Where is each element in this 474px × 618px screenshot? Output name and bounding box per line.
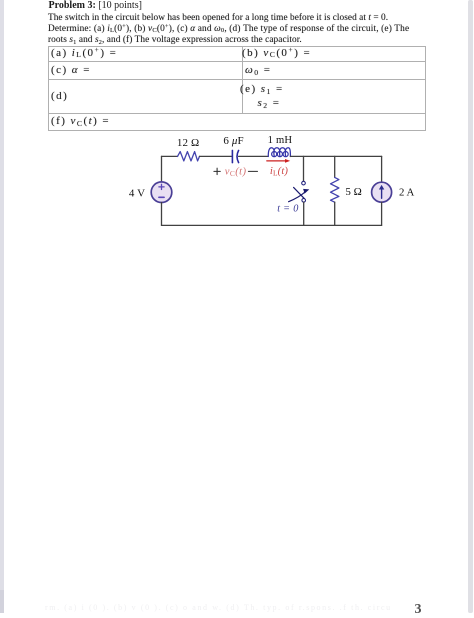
paragraph line 3 bbox=[48, 35, 302, 47]
wire bottom bbox=[162, 224, 382, 226]
right page-edge strip bbox=[468, 0, 474, 613]
svg-text:t = 0: t = 0 bbox=[277, 204, 299, 215]
wire right vertical (bottom part) bbox=[381, 202, 383, 225]
answer table borders bbox=[48, 46, 426, 47]
inductor L 1 mH bbox=[268, 148, 290, 157]
wire switch branch (top part) bbox=[303, 156, 305, 181]
svg-text:iL(t): iL(t) bbox=[270, 166, 289, 178]
paragraph line 2 bbox=[48, 24, 409, 36]
wire top segment: left corner to 12-ohm resistor bbox=[162, 155, 178, 157]
svg-text:4 V: 4 V bbox=[129, 187, 145, 199]
svg-text:1 mH: 1 mH bbox=[268, 135, 293, 146]
resistor R 12 ohm bbox=[178, 152, 200, 161]
label + vC(t) - capacitor voltage bbox=[214, 167, 258, 179]
page number 3 bbox=[415, 602, 422, 618]
wire 5-ohm branch (top part) bbox=[334, 156, 336, 177]
faint show-through text from next page bbox=[45, 603, 392, 612]
heading bbox=[49, 0, 142, 11]
wire right vertical (top part) bbox=[381, 156, 383, 182]
wire left vertical (top part) bbox=[161, 156, 163, 182]
voltage source V1 4V bbox=[151, 182, 172, 203]
svg-text:5 Ω: 5 Ω bbox=[345, 186, 361, 198]
wire capacitor to inductor bbox=[239, 155, 268, 157]
wire 5-ohm branch (bottom part) bbox=[334, 202, 336, 225]
svg-text:2 A: 2 A bbox=[399, 187, 415, 199]
left page-edge strip bbox=[0, 0, 4, 613]
switch SW closes at t=0 bbox=[289, 181, 310, 202]
wire switch branch (bottom part) bbox=[303, 202, 305, 225]
paragraph line 1 bbox=[48, 13, 388, 24]
table cell texts bbox=[51, 47, 117, 59]
wire left vertical (bottom part) bbox=[161, 203, 163, 226]
current arrow iL(t) under inductor bbox=[267, 159, 290, 163]
svg-text:12 Ω: 12 Ω bbox=[177, 137, 199, 149]
capacitor C 6 uF bbox=[232, 150, 238, 162]
current source I1 2A bbox=[372, 182, 392, 202]
svg-text:vC(t): vC(t) bbox=[225, 167, 247, 179]
wire resistor to capacitor bbox=[200, 155, 232, 157]
svg-text:6 μF: 6 μF bbox=[223, 135, 243, 147]
resistor R 5 ohm bbox=[331, 177, 339, 202]
wire top right: inductor to right corner bbox=[290, 155, 381, 157]
